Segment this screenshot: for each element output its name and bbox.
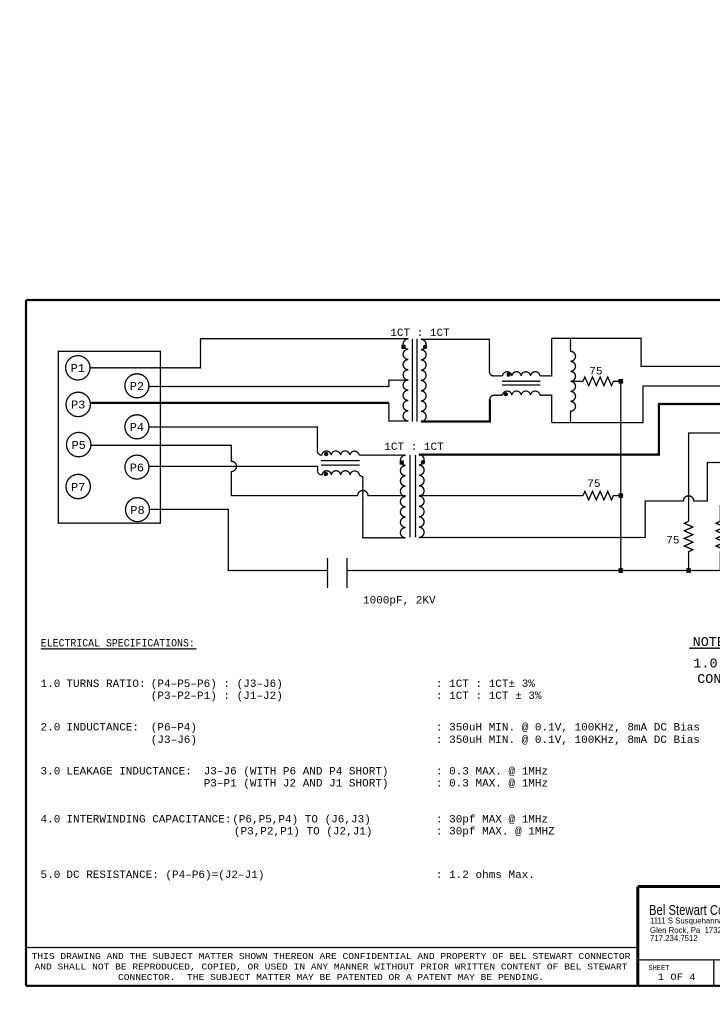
svg-text:P1: P1 xyxy=(71,362,85,376)
pin P3 xyxy=(66,392,90,416)
spec value 4.0 xyxy=(436,815,555,839)
choke L3 top winding xyxy=(503,372,540,376)
junction dot R2 to rail xyxy=(619,493,624,498)
svg-text:5.0: 5.0 xyxy=(41,870,61,882)
pin P1 xyxy=(66,356,90,380)
svg-text:AND SHALL NOT BE REPRODUCED, C: AND SHALL NOT BE REPRODUCED, COPIED, OR … xyxy=(35,961,628,972)
wire top net to output J pair xyxy=(552,338,720,366)
svg-text:P8: P8 xyxy=(130,504,144,518)
svg-text:P5: P5 xyxy=(71,439,85,453)
wire P1 to T1 primary top xyxy=(90,339,408,368)
resistor R1 75 xyxy=(583,377,619,386)
spec value 2.0 xyxy=(436,722,700,747)
spec item 2.0 inductance xyxy=(41,722,198,747)
title block vertical divider xyxy=(713,960,715,986)
transformer T2 core xyxy=(410,455,416,538)
choke L3 top polarity dot xyxy=(507,373,511,377)
svg-text:(P3,P2,P1) TO (J2,J1): (P3,P2,P1) TO (J2,J1) xyxy=(234,827,373,839)
choke L3 core xyxy=(502,381,540,385)
spec item 4.0 interwinding capacitance xyxy=(41,815,373,839)
wire P8 to capacitor C1 xyxy=(150,509,328,570)
wire T2 secondary top thick output xyxy=(419,404,720,455)
svg-text:: 0.3 MAX. @ 1MHz: : 0.3 MAX. @ 1MHz xyxy=(436,766,548,778)
pin P8 xyxy=(126,498,150,522)
svg-text:DC RESISTANCE: (P4–P6)=(J2–J1): DC RESISTANCE: (P4–P6)=(J2–J1) xyxy=(66,870,264,882)
svg-text:NOTES:: NOTES: xyxy=(693,636,720,651)
wire T1 secondary top to choke L3 xyxy=(421,339,503,376)
wire choke L1 bottom down and to T2 primary bottom xyxy=(359,475,405,538)
svg-text:75: 75 xyxy=(589,367,602,379)
svg-text:4.0: 4.0 xyxy=(41,815,61,827)
wire P5 vertical with hop over P6 wire xyxy=(91,445,237,495)
svg-text:INTERWINDING CAPACITANCE:: INTERWINDING CAPACITANCE: xyxy=(66,815,231,827)
wire T2 center tap to resistor R2 xyxy=(419,495,583,497)
wire P6 to choke L1 bottom xyxy=(149,466,318,471)
svg-text:1.0 P: 1.0 P xyxy=(693,657,720,672)
wire L2 tap to resistor R1 xyxy=(571,380,584,382)
svg-text:: 350uH MIN. @ 0.1V, 100KHz, 8: : 350uH MIN. @ 0.1V, 100KHz, 8mA DC Bias xyxy=(436,735,700,747)
svg-text:P6: P6 xyxy=(130,461,144,475)
wire P3 step to T1 primary bottom xyxy=(389,403,408,421)
transformer T2 secondary winding xyxy=(419,455,424,538)
heading ELECTRICAL SPECIFICATIONS xyxy=(41,638,197,650)
svg-text:CONN: CONN xyxy=(697,673,720,688)
transformer T1 secondary winding xyxy=(421,339,426,421)
svg-text:(P6–P4): (P6–P4) xyxy=(151,722,197,734)
wire feed to resistor R3 xyxy=(689,433,720,521)
svg-text:INDUCTANCE:: INDUCTANCE: xyxy=(66,722,139,734)
svg-text:P3: P3 xyxy=(71,399,85,413)
resistor R4 75 at clipped right edge xyxy=(716,505,720,571)
svg-text:1111 S Susquehanna Trail: 1111 S Susquehanna Trail xyxy=(650,916,720,925)
svg-text:P4: P4 xyxy=(130,421,144,435)
spec value 3.0 xyxy=(436,766,548,790)
svg-text:P7: P7 xyxy=(71,481,85,495)
svg-text:(J3–J6): (J3–J6) xyxy=(151,735,197,747)
svg-text:: 30pf MAX @ 1MHz: : 30pf MAX @ 1MHz xyxy=(436,815,548,827)
transformer T1 primary winding xyxy=(403,339,408,421)
svg-text:717.234.7512: 717.234.7512 xyxy=(650,934,698,943)
resistor R3 75 (vertical) xyxy=(684,521,693,570)
choke L1 core xyxy=(321,461,360,466)
svg-text:TURNS RATIO:: TURNS RATIO: xyxy=(66,679,145,691)
svg-text:P2: P2 xyxy=(130,380,144,394)
svg-text:75: 75 xyxy=(587,479,600,491)
spec value 1.0 xyxy=(436,679,542,703)
wire T2 secondary bottom with hop to right output xyxy=(419,463,720,538)
title block border xyxy=(638,887,720,986)
pin P4 xyxy=(125,415,149,439)
border frame of drawing xyxy=(26,300,720,986)
title block address xyxy=(650,916,720,943)
svg-text:1.0: 1.0 xyxy=(41,679,61,691)
choke L1 top polarity dot xyxy=(324,452,328,456)
junction dot R1 to rail xyxy=(619,379,624,384)
svg-text:LEAKAGE INDUCTANCE:: LEAKAGE INDUCTANCE: xyxy=(66,766,191,778)
transformer T2 primary winding xyxy=(400,455,405,538)
pin P5 xyxy=(67,432,91,456)
svg-text:: 1.2 ohms Max.: : 1.2 ohms Max. xyxy=(436,870,535,882)
pin P6 xyxy=(125,455,149,479)
notes heading (clipped) xyxy=(689,636,720,651)
svg-text:: 30pf MAX. @ 1MHZ: : 30pf MAX. @ 1MHZ xyxy=(436,827,555,839)
svg-text:1 OF 4: 1 OF 4 xyxy=(658,972,696,984)
shunt inductor L2 xyxy=(571,338,576,422)
wire T1 secondary bottom to choke L3 (thick) xyxy=(421,399,490,421)
choke L1 bottom polarity dot xyxy=(324,472,328,476)
wire P2 to T1 primary center tap xyxy=(149,380,408,386)
svg-text:: 0.3 MAX. @ 1MHz: : 0.3 MAX. @ 1MHz xyxy=(436,779,548,791)
junction dot rail to ground xyxy=(619,568,624,573)
wire C1 to ground rail xyxy=(347,570,720,572)
svg-text:2.0: 2.0 xyxy=(41,722,61,734)
choke L3 bottom winding xyxy=(503,391,540,395)
transformer T2 secondary polarity dot xyxy=(421,460,425,464)
svg-text:1CT : 1CT: 1CT : 1CT xyxy=(390,328,450,340)
connector box P1-P8 xyxy=(58,351,160,523)
svg-text:P3–P1 (WITH J2 AND J1 SHORT): P3–P1 (WITH J2 AND J1 SHORT) xyxy=(204,779,389,791)
svg-text:THIS DRAWING AND THE SUBJECT M: THIS DRAWING AND THE SUBJECT MATTER SHOW… xyxy=(32,951,631,962)
spec item 1.0 turns ratio xyxy=(41,679,283,703)
svg-text:(P6,P5,P4) TO (J6,J3): (P6,P5,P4) TO (J6,J3) xyxy=(232,815,371,827)
svg-text:1000pF, 2KV: 1000pF, 2KV xyxy=(363,596,436,608)
resistor R2 75 xyxy=(583,491,619,500)
note 1.0 (clipped) xyxy=(693,657,720,688)
svg-text:: 1CT : 1CT± 3%: : 1CT : 1CT± 3% xyxy=(436,679,535,691)
pin P2 xyxy=(125,374,149,398)
wire P5 horizontal with hop over choke exit, to T2 center tap xyxy=(231,490,405,495)
svg-text:: 350uH MIN. @ 0.1V, 100KHz, 8: : 350uH MIN. @ 0.1V, 100KHz, 8mA DC Bias xyxy=(436,722,700,734)
wire choke L1 top to T2 primary top xyxy=(359,454,405,456)
svg-text:J3–J6 (WITH P6 AND P4 SHORT): J3–J6 (WITH P6 AND P4 SHORT) xyxy=(204,766,389,778)
transformer T2 primary polarity dot xyxy=(400,461,404,465)
wire P4 to choke L1 top xyxy=(149,427,318,452)
vertical rail to ground xyxy=(620,381,622,570)
svg-text:: 1CT : 1CT ± 3%: : 1CT : 1CT ± 3% xyxy=(436,691,542,703)
title block divider xyxy=(638,959,720,961)
junction dot R3 to ground xyxy=(686,568,691,573)
transformer T1 primary polarity dot xyxy=(401,345,405,349)
pin P7 xyxy=(66,474,90,498)
spec item 3.0 leakage inductance xyxy=(41,766,389,790)
wire P3 thick segment xyxy=(90,402,389,404)
confidentiality box xyxy=(26,948,638,984)
svg-text:75: 75 xyxy=(666,535,679,547)
choke L3 bottom polarity dot xyxy=(504,392,508,396)
svg-text:1CT : 1CT: 1CT : 1CT xyxy=(384,442,444,454)
transformer T1 core xyxy=(412,339,417,422)
svg-text:(P4–P5–P6) : (J3–J6): (P4–P5–P6) : (J3–J6) xyxy=(151,679,283,691)
wire choke L3 top output xyxy=(540,338,552,376)
transformer T1 secondary polarity dot xyxy=(423,345,427,349)
choke L1 bottom winding xyxy=(318,471,360,475)
svg-text:CONNECTOR. THE SUBJECT MATTER: CONNECTOR. THE SUBJECT MATTER MAY BE PAT… xyxy=(118,972,544,983)
svg-text:(P3–P2–P1) : (J1–J2): (P3–P2–P1) : (J1–J2) xyxy=(151,691,283,703)
choke L1 top winding (channel 2) xyxy=(317,451,359,455)
capacitor C1 1000pF 2KV xyxy=(328,558,348,588)
spec item 5.0 dc resistance xyxy=(41,870,265,882)
wire into choke L3 bottom xyxy=(490,395,503,399)
wire bottom net to output J pair xyxy=(552,386,720,423)
wire choke L3 bottom output xyxy=(540,395,552,422)
svg-text:3.0: 3.0 xyxy=(41,766,61,778)
